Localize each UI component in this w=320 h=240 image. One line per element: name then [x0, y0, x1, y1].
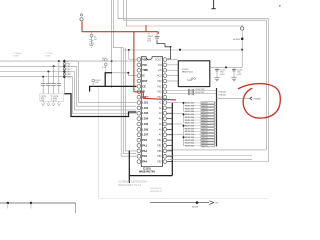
svg-text:0.01: 0.01: [41, 100, 45, 102]
bottom wire left: [0, 202, 76, 204]
testpoint pin P42: [63, 63, 65, 65]
node ladder group 3: [183, 125, 185, 127]
op IC1202 box: [178, 61, 210, 87]
ladder group 1 vertical: [183, 103, 185, 112]
red speck: [279, 5, 281, 7]
wire bus to pin17: [121, 48, 136, 157]
svg-text:R1224 220: R1224 220: [185, 143, 194, 145]
stub pin 40 to thick bus: [167, 161, 173, 163]
node junction 3: [241, 49, 243, 51]
wire IC1202 to node: [210, 66, 242, 68]
ground marker 4 below caps: [57, 103, 60, 106]
svg-text:TMB: TMB: [142, 69, 148, 72]
svg-text:ACL: ACL: [157, 75, 162, 78]
node junction on wire: [225, 66, 227, 68]
wire tp to pin10b: [64, 72, 136, 110]
pin 13 left of IC1201: [137, 122, 141, 126]
red power wire horizontal: [82, 31, 158, 33]
diode D1201 ground: [89, 43, 94, 45]
wire pin to ladder group 1: [167, 101, 180, 103]
node junction cap C1214: [42, 76, 44, 78]
svg-text:L105: L105: [142, 123, 148, 126]
svg-text:P40: P40: [142, 64, 147, 67]
component Q1201: [105, 59, 108, 62]
resistor R1223: [184, 139, 201, 141]
wire from node to IC pin1: [129, 50, 137, 60]
svg-text:0427 R: 0427 R: [202, 103, 208, 105]
svg-text:R1214 220: R1214 220: [185, 114, 194, 116]
svg-text:L107: L107: [142, 134, 148, 137]
svg-text:P26 (26): P26 (26): [219, 91, 227, 93]
pin 3 left of IC1201: [137, 68, 141, 72]
sheet border left+bottom: [98, 88, 100, 199]
stub pin 31 to thick bus: [167, 112, 173, 114]
svg-text:0427 R: 0427 R: [202, 137, 208, 139]
svg-text:0427 R: 0427 R: [202, 126, 208, 128]
svg-text:R1217 220: R1217 220: [185, 123, 194, 125]
pin 6 left of IC1201: [137, 85, 141, 89]
capacitor C1202: [187, 89, 189, 92]
wire stub above connector: [241, 25, 243, 27]
svg-text:0427 R: 0427 R: [202, 128, 208, 130]
svg-text:MN1871611: MN1871611: [182, 72, 194, 74]
pin 36 right of IC1201: [163, 138, 167, 142]
pin 18 left of IC1201: [137, 149, 141, 153]
svg-text:scanned by: scanned by: [150, 188, 163, 190]
stub pin 32 to thick bus: [167, 118, 173, 120]
node bottom 1: [7, 202, 9, 204]
input wire 1 from left edge: [0, 60, 136, 62]
svg-text:elektroda.pl: elektroda.pl: [150, 190, 162, 193]
node junction cap C1212: [53, 65, 55, 67]
svg-text:0427 R: 0427 R: [202, 117, 208, 119]
pin 22 right of IC1201: [163, 63, 167, 67]
svg-text:L102: L102: [142, 107, 148, 110]
node junction 1: [128, 49, 130, 51]
svg-text:MN152451TVH: MN152451TVH: [139, 171, 155, 174]
pin 4 left of IC1201: [137, 74, 141, 78]
thick frame bottom: [129, 175, 172, 177]
svg-text:0427 R: 0427 R: [202, 120, 208, 122]
connector A1201 circle: [241, 27, 244, 30]
stub pin 30 to thick bus: [167, 107, 173, 109]
svg-text:P60: P60: [157, 81, 162, 83]
resistor R1212: [184, 108, 201, 110]
wire net VSS horizontal: [124, 49, 242, 51]
input wire 2 from left edge: [0, 65, 64, 67]
capacitor C1212: [53, 66, 55, 83]
wire tp to pin9: [64, 61, 136, 102]
node junction cap C1213: [47, 71, 49, 73]
annotation arrow: [250, 97, 253, 100]
pin 26 right of IC1201: [163, 85, 167, 89]
svg-text:A-XXX: A-XXX: [192, 205, 198, 208]
pin 5 left of IC1201: [137, 79, 141, 83]
svg-text:0427 R: 0427 R: [202, 140, 208, 142]
svg-text:PA0: PA0: [142, 139, 147, 142]
pin 39 right of IC1201: [163, 154, 167, 158]
svg-text:P62: P62: [157, 92, 162, 94]
wire pin to ladder group 4: [167, 134, 180, 136]
stub pin 35 to thick bus: [167, 134, 173, 136]
svg-text:R1225 220: R1225 220: [185, 146, 194, 148]
pin 30 right of IC1201: [163, 106, 167, 110]
wire pin row to caps C1203: [167, 93, 188, 95]
wire loop L3 to connector circle: [126, 0, 242, 26]
pin 11 left of IC1201: [137, 111, 141, 115]
stub pin 36 to thick bus: [167, 139, 173, 141]
node ladder group 1: [183, 102, 185, 104]
resistor R1214: [184, 113, 201, 115]
svg-text:IC: IC: [142, 75, 145, 78]
svg-text:R1220 220: R1220 220: [185, 131, 194, 133]
svg-text:XOUT: XOUT: [155, 59, 162, 61]
wire pin38 long right: [168, 154, 252, 156]
red trace hook through IC: [134, 92, 176, 100]
wire connector down: [241, 30, 243, 67]
resistor R1211: [184, 105, 201, 107]
capacitor C1203: [187, 92, 189, 95]
node junction cap C1211: [58, 60, 60, 62]
resistor R1224: [184, 142, 201, 144]
resistor R1202: [92, 79, 95, 82]
input wire 4 from left edge: [0, 76, 64, 78]
capacitor C1214: [42, 77, 44, 84]
svg-text:L101: L101: [142, 101, 148, 104]
pin 10 left of IC1201: [137, 106, 141, 110]
resistor R1216: [184, 119, 201, 121]
stub pin 38 to thick bus: [167, 150, 173, 152]
off-page arrow bottom: [209, 201, 214, 205]
svg-text:L103: L103: [142, 112, 148, 115]
capacitor C1213: [47, 72, 49, 84]
pin 34 right of IC1201: [163, 128, 167, 132]
testpoint node GND: [63, 75, 66, 78]
wire bus to pin19: [125, 48, 136, 151]
pin 31 right of IC1201: [163, 111, 167, 115]
thick trace from testpoint column: [64, 94, 136, 117]
svg-text:0427 R: 0427 R: [202, 108, 208, 110]
svg-text:PA2: PA2: [142, 150, 147, 153]
ground marker 2 below caps: [47, 103, 50, 106]
resistor R1222: [184, 136, 201, 138]
pin 1 left of IC1201: [137, 58, 141, 62]
wire branch to pin4: [112, 73, 136, 76]
wire pin 23 to IC1202: [167, 69, 179, 71]
pin 17 left of IC1201: [137, 144, 141, 148]
svg-text:TWW: TWW: [187, 80, 192, 82]
pin 12 left of IC1201: [137, 117, 141, 121]
svg-text:0427 R: 0427 R: [202, 134, 208, 136]
svg-text:CN802: CN802: [45, 55, 52, 57]
ladder group 3 vertical: [183, 126, 185, 135]
diode D1201 symbol: [91, 32, 93, 35]
red stub up near IC top: [145, 25, 147, 31]
pin 8 left of IC1201: [137, 95, 141, 99]
capacitor C1211: [58, 61, 60, 83]
pin 15 left of IC1201: [137, 133, 141, 137]
svg-text:R1223 220: R1223 220: [185, 140, 194, 142]
thick frame left: [128, 151, 130, 184]
stub pin 34 to thick bus: [167, 128, 173, 130]
resistor R1218: [184, 125, 201, 127]
svg-text:R1222 220: R1222 220: [185, 137, 194, 139]
svg-text:L104: L104: [142, 118, 148, 121]
pin 20 left of IC1201: [137, 160, 141, 164]
red wire from J1 down: [81, 21, 83, 31]
svg-text:0427 R: 0427 R: [202, 114, 208, 116]
resistor R1215: [184, 116, 201, 118]
ground marker 1 below caps: [42, 103, 45, 106]
svg-text:C1203 18P: C1203 18P: [195, 92, 205, 94]
capacitor C1206: [233, 67, 235, 69]
svg-text:PB4: PB4: [157, 156, 162, 158]
wire pin to ladder group 3: [167, 123, 180, 125]
wire crystal to XOUT: [157, 40, 171, 59]
pin 27 right of IC1201: [163, 90, 167, 94]
node junction pin4 wire: [127, 72, 129, 74]
svg-text:R1210 220: R1210 220: [185, 103, 194, 105]
bottom wire right: [150, 202, 209, 204]
svg-text:A-1201: A-1201: [234, 38, 241, 41]
svg-text:01: 01: [102, 60, 104, 62]
svg-text:PB2: PB2: [157, 145, 162, 147]
svg-text:PANASONIC TX-21: PANASONIC TX-21: [118, 183, 141, 187]
pin 38 right of IC1201: [163, 149, 167, 153]
svg-text:R1213 220: R1213 220: [185, 111, 194, 113]
resistor R1225: [184, 145, 201, 147]
node on bus A: [111, 60, 113, 62]
wire loop L1 top/right: [118, 0, 268, 162]
svg-text:0427 R: 0427 R: [202, 111, 208, 113]
thick trace branch up: [105, 73, 112, 87]
bottom wire corner down: [75, 203, 77, 213]
wire bus to pin18: [123, 48, 136, 154]
wire pin to ladder group 2: [167, 112, 180, 114]
red vertical trace to pin 7: [133, 32, 135, 92]
testpoint column wire: [63, 59, 65, 94]
label box capacitors right: [52, 94, 64, 101]
wire pin row to caps C1202: [167, 90, 188, 92]
off-page connector line: [213, 0, 215, 9]
svg-text:PC8205: PC8205: [254, 98, 262, 100]
svg-text:R1216 220: R1216 220: [185, 120, 194, 122]
svg-text:PA1: PA1: [142, 144, 147, 147]
svg-text:PA3: PA3: [142, 155, 147, 158]
testpoint node 5V: [63, 60, 66, 63]
svg-text:R1219 220: R1219 220: [185, 128, 194, 130]
red annotation loop: [239, 84, 281, 119]
stub pin 33 to thick bus: [167, 123, 173, 125]
svg-text:PA4: PA4: [142, 161, 147, 164]
wire pin 24 to IC1202: [167, 75, 179, 77]
wire pin 21 to IC1202: [167, 59, 179, 61]
svg-text:0427 R: 0427 R: [202, 146, 208, 148]
svg-text:VDD: VDD: [142, 58, 147, 61]
resistor R1220: [184, 131, 201, 133]
pin 16 left of IC1201: [137, 138, 141, 142]
svg-text:P28 (24): P28 (24): [219, 95, 227, 97]
pin 25 right of IC1201: [163, 79, 167, 83]
svg-text:0427 R: 0427 R: [202, 123, 208, 125]
wire pin 22 to IC1202: [167, 64, 179, 66]
wire pin39 long right: [168, 159, 252, 161]
bus vertical from top edge A: [111, 0, 113, 88]
stub pin 39 to thick bus: [167, 155, 173, 157]
ground below C1206: [231, 77, 236, 79]
pin 2 left of IC1201: [137, 63, 141, 67]
resistor R1213: [184, 110, 201, 112]
svg-text:R1211 220: R1211 220: [185, 105, 194, 107]
node bottom 3: [196, 201, 199, 204]
svg-text:XIN: XIN: [158, 65, 162, 67]
bus vertical from top edge B with corner: [113, 0, 123, 48]
pin 35 right of IC1201: [163, 133, 167, 137]
node ladder group 2: [183, 113, 185, 115]
node ladder group 4: [183, 136, 185, 138]
svg-text:TMB: TMB: [145, 97, 150, 99]
capacitor C1205: [216, 67, 218, 69]
svg-text:0427 R: 0427 R: [202, 106, 208, 108]
pin 24 right of IC1201: [163, 74, 167, 78]
svg-text:L106: L106: [142, 128, 148, 131]
svg-text:0427 R: 0427 R: [202, 131, 208, 133]
testpoint pin P40: [63, 68, 65, 70]
svg-text:SCHEMAT SERWISOWY: SCHEMAT SERWISOWY: [118, 180, 148, 184]
wire tp to pin10: [64, 66, 136, 106]
node junction 2: [179, 49, 181, 51]
connector J1 top circle: [80, 14, 82, 16]
pin 40 right of IC1201: [163, 160, 167, 164]
wire pin 25 to IC1202: [167, 80, 179, 82]
svg-text:RST: RST: [142, 80, 147, 83]
ladder group 2 vertical: [183, 114, 185, 123]
node bottom 2: [30, 202, 32, 204]
svg-text:0.022: 0.022: [220, 74, 225, 76]
testpoint node KEY: [63, 70, 66, 73]
svg-text:4.00: 4.00: [147, 41, 151, 43]
resistor R1221: [184, 133, 201, 135]
op IC1201 body: [141, 57, 162, 167]
thick trace resistor branch: [90, 86, 137, 91]
pin 23 right of IC1201: [163, 68, 167, 72]
testpoint node P41: [63, 65, 66, 68]
ladder bus vertical: [216, 88, 218, 147]
ladder group 4 vertical: [183, 137, 185, 146]
svg-text:R1212 220: R1212 220: [185, 108, 194, 110]
svg-text:PB1: PB1: [157, 140, 162, 142]
svg-text:0427 R: 0427 R: [202, 143, 208, 145]
wire loop L2 top/right: [124, 0, 267, 150]
stub pin 37 to thick bus: [167, 144, 173, 146]
node A1201: [241, 38, 244, 41]
pin 21 right of IC1201: [163, 58, 167, 62]
pin 19 left of IC1201: [137, 154, 141, 158]
svg-text:P61: P61: [157, 86, 162, 88]
resistor R1219: [184, 128, 201, 130]
connector J1 bottom circle: [80, 18, 83, 21]
ground marker 3 below caps: [52, 103, 55, 106]
pin 32 right of IC1201: [163, 117, 167, 121]
svg-text:CE: CE: [142, 85, 146, 88]
label box capacitors left: [40, 94, 52, 101]
node crystal wire: [170, 46, 172, 48]
capacitor crystal: [155, 36, 160, 38]
svg-text:201: 201: [94, 39, 97, 41]
red stub down at right end: [157, 32, 159, 34]
svg-text:0.022: 0.022: [237, 74, 242, 76]
svg-text:CN801: CN801: [13, 55, 20, 57]
thick bus right of IC: [171, 103, 173, 176]
resistor R1210: [184, 102, 201, 104]
pin 37 right of IC1201: [163, 144, 167, 148]
resistor R1217: [184, 122, 201, 124]
pin 14 left of IC1201: [137, 128, 141, 132]
svg-text:C1202 18P: C1202 18P: [195, 89, 205, 91]
testpoint pin LED: [63, 73, 65, 75]
svg-text:R1218 220: R1218 220: [185, 125, 194, 127]
wire to annotation arrow: [217, 97, 250, 99]
pin 33 right of IC1201: [163, 122, 167, 126]
ground below C1205: [214, 77, 219, 79]
svg-text:LIR: LIR: [158, 70, 162, 72]
pin 7 left of IC1201: [137, 90, 141, 94]
stub bottom 2: [30, 203, 32, 209]
svg-text:R1221 220: R1221 220: [185, 134, 194, 136]
pin 28 right of IC1201: [163, 95, 167, 99]
pin 29 right of IC1201: [163, 101, 167, 105]
svg-text:PB3: PB3: [157, 151, 162, 153]
IC1202 internal pins: [191, 78, 193, 80]
input wire 3 from left edge: [0, 71, 64, 73]
svg-text:R1215 220: R1215 220: [185, 117, 194, 119]
svg-text:PB5: PB5: [157, 162, 162, 164]
stub bottom 1: [7, 203, 9, 209]
wire tp to pin11: [64, 77, 136, 114]
svg-text:IC1201: IC1201: [143, 168, 151, 171]
pin 9 left of IC1201: [137, 101, 141, 105]
